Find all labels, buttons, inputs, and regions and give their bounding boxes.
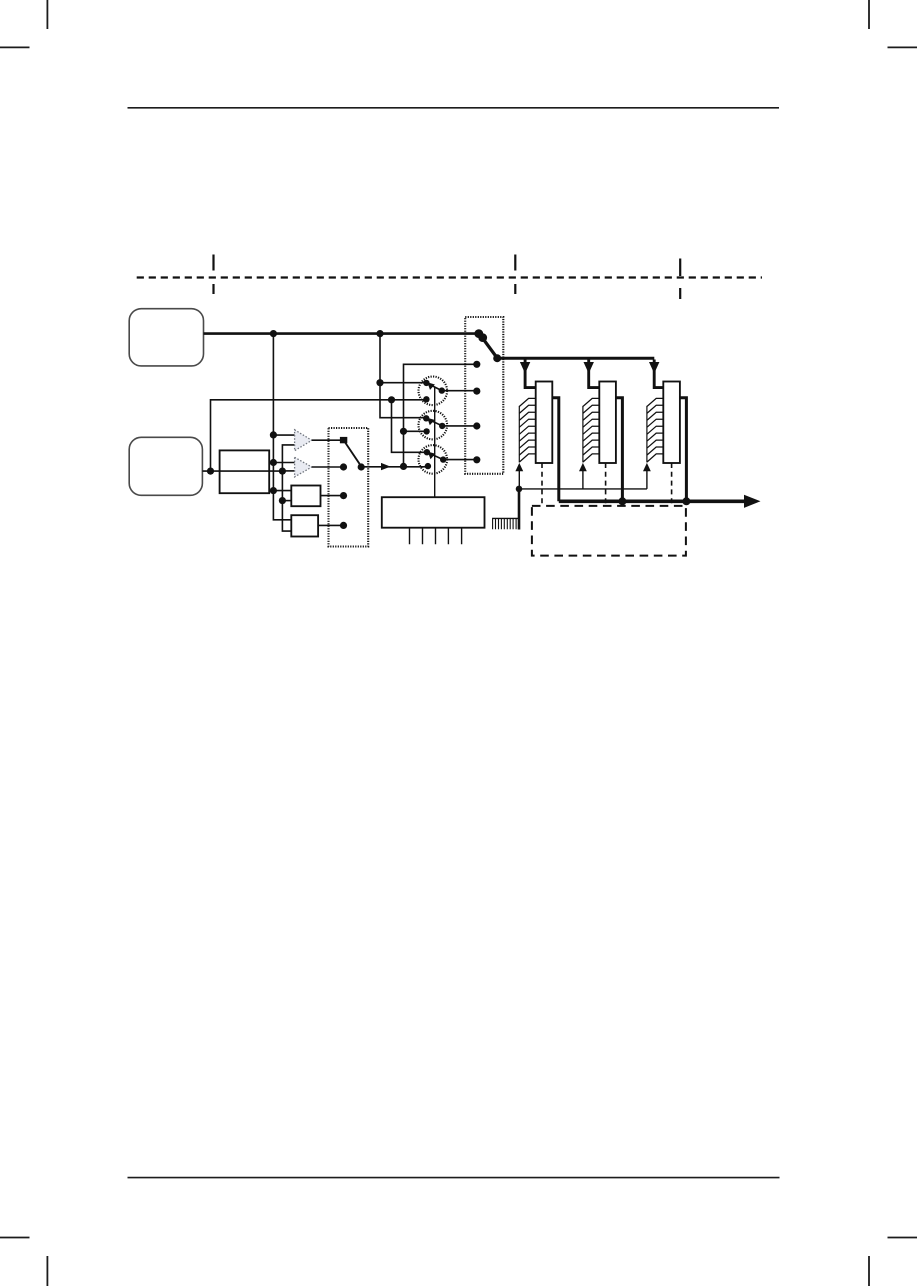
counter rect block1 (536, 382, 553, 464)
timer block 2 (579, 360, 622, 506)
tap hatch block3 (646, 406, 648, 463)
counter rect block2 (599, 382, 616, 464)
boundary tick 2 (514, 255, 516, 295)
mux1 lever (345, 442, 362, 467)
wire: B branch to divider rect1 lower input (282, 500, 291, 502)
clock down-arrow into block1 (525, 360, 536, 388)
wire: A bend feed to switch circle2 upper input (380, 334, 426, 418)
junction dots on OSC2 line (207, 468, 214, 475)
crop mark bottom-left (0, 1238, 47, 1286)
crop mark top-left (0, 0, 47, 47)
up arrow into block3 hatch (646, 471, 648, 489)
junction dot on A branch vertical (376, 379, 383, 386)
wire: circle3 output to mux2 input5 (443, 459, 477, 461)
wire: vertical line D (mux1 output riser to mux2 input2) (404, 364, 477, 466)
control block pins (410, 528, 462, 545)
feed distribution line to up-arrows (519, 488, 647, 490)
wire: OSC1 thick output bus to mux2 pole (204, 332, 481, 335)
up arrow into block2 hatch (582, 471, 584, 489)
mux1 pole square (340, 437, 347, 443)
timer block 1 (515, 360, 558, 506)
dashed control drop block1 (541, 463, 543, 506)
junction dot comb riser (516, 486, 523, 493)
divider switch circle 3 (419, 445, 448, 474)
clock down-arrow into block2 (589, 360, 600, 388)
boundary tick 3 (679, 259, 681, 300)
dashed control drop block2 (605, 463, 607, 506)
dashed control box (532, 506, 686, 556)
junction dots on line A (270, 431, 277, 438)
buffer 2 (triangle) (295, 457, 312, 477)
mux2 (dotted selector box) (465, 317, 503, 474)
header rule (128, 107, 780, 109)
mux1 input contact dots (340, 463, 365, 529)
divider rect 1 (291, 486, 320, 507)
wire: mux1 output with arrowhead (361, 466, 428, 468)
junction dots on line D (400, 428, 407, 435)
main thick output bus (559, 499, 745, 503)
control line through switch circles (434, 387, 436, 498)
wire: circle2 output to mux2 input4 (442, 425, 477, 427)
thick output of block3 (680, 398, 687, 502)
junction dots on output bus (618, 497, 626, 505)
mux1 (dotted selector box) (329, 428, 369, 547)
comb thick riser (518, 489, 521, 530)
wire: vertical line B branches (282, 445, 294, 531)
mux2 thick lever (480, 334, 498, 358)
wire: vertical line A from OSC1 bus (273, 334, 291, 520)
tap hatch block1 (518, 406, 520, 463)
control block (382, 497, 485, 528)
divider rect 2 (291, 515, 318, 536)
mux2 input contact dots (473, 361, 480, 368)
wire: vertical line C to switch circle 3 upper input (392, 400, 427, 453)
wire: A branch to buffer1 upper input (273, 434, 294, 436)
divider switch circle 1 (419, 377, 448, 406)
dashed control drop block3 (671, 463, 673, 506)
wire: divider rect2 output to mux1 input4 (318, 524, 343, 526)
mux1 common contact dot (358, 463, 365, 470)
counter rect block3 (663, 382, 680, 464)
tap hatch block2 (582, 406, 584, 463)
footer rule (128, 1177, 780, 1179)
wire: divider rect1 output to mux1 input3 (321, 495, 344, 497)
wire: A branch to switch circle1 upper input (380, 382, 426, 384)
crop mark bottom-right (869, 1238, 917, 1286)
clock down-arrow into block3 (654, 360, 663, 388)
output bus arrowhead (744, 495, 761, 508)
comb clock symbol (492, 489, 647, 530)
wire: buffer2 output to mux1 input2 (312, 466, 344, 468)
up arrow into block1 hatch (518, 471, 520, 489)
junction dots on OSC1 bus (207, 330, 407, 504)
oscillator block OSC1 (rounded) (129, 309, 203, 366)
wire: mux2 thick output bus (497, 357, 654, 360)
wire: buffer1 output to mux1 input1 (312, 439, 340, 441)
boundary tick 1 (212, 255, 214, 295)
wire: D branch to switch circle2 lower input (404, 430, 427, 432)
crop mark top-right (869, 0, 917, 47)
junction dot on long feed line (388, 396, 395, 403)
buffer 1 (triangle) (295, 430, 312, 451)
crystal block (220, 450, 270, 493)
wire: circle1 output to mux2 input3 (442, 390, 477, 392)
wire: A branch to buffer2 upper input (273, 462, 294, 464)
divider switch circle 2 (419, 411, 448, 440)
oscillator block OSC2 (rounded) (129, 437, 202, 495)
wire: OSC2 output through crystal block (202, 470, 282, 472)
mux2 pole dots (473, 329, 501, 463)
wire: A branch to divider rect1 input (273, 490, 291, 492)
timer block 3 (643, 360, 686, 506)
wire: riser from OSC2 output to long feed line (211, 400, 427, 471)
thick output of block2 (616, 398, 623, 502)
wire: B branch to buffer2 lower input (282, 470, 294, 472)
thick output of block1 (552, 398, 559, 502)
dashed domain boundary line (137, 276, 762, 278)
